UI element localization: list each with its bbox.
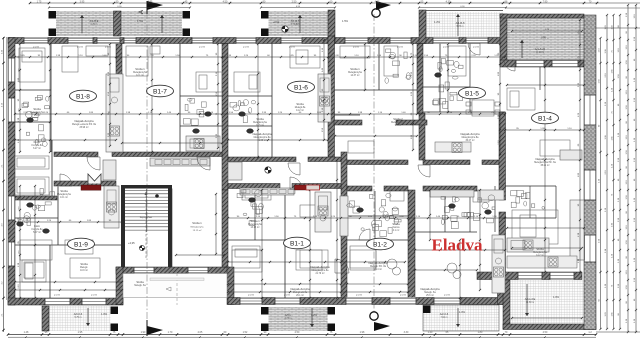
svg-text:3.30: 3.30	[404, 331, 409, 334]
svg-text:Melegkonyha: Melegkonyha	[248, 224, 262, 226]
svg-text:12.5 m²: 12.5 m²	[256, 124, 264, 127]
svg-text:3.73 m: 3.73 m	[284, 318, 291, 320]
svg-text:+4,35: +4,35	[128, 241, 135, 245]
svg-text:1.95: 1.95	[78, 331, 83, 334]
svg-text:B1-8: B1-8	[76, 93, 90, 100]
svg-text:Melegkonyha: Melegkonyha	[57, 194, 71, 196]
svg-text:Melegkonyha 8a: Melegkonyha 8a	[254, 137, 272, 139]
svg-text:6.27 m²: 6.27 m²	[33, 147, 41, 150]
svg-text:+2.52: +2.52	[273, 20, 280, 24]
svg-text:6.75(B6): 6.75(B6)	[291, 24, 300, 26]
svg-text:36.27 m²: 36.27 m²	[465, 139, 474, 142]
svg-text:25.96 m²: 25.96 m²	[79, 126, 88, 129]
svg-text:4.30: 4.30	[446, 1, 451, 4]
svg-text:14.2 m²: 14.2 m²	[296, 109, 304, 112]
svg-text:A/1-B-6: A/1-B-6	[291, 19, 300, 23]
svg-text:pro B5: pro B5	[443, 47, 450, 49]
svg-text:1.0%: 1.0%	[459, 310, 466, 314]
svg-text:2.50: 2.50	[295, 331, 300, 334]
svg-text:Szoba: Szoba	[136, 280, 144, 284]
svg-text:21.79 m²: 21.79 m²	[315, 272, 324, 275]
svg-text:1.75: 1.75	[37, 1, 42, 4]
svg-text:Fozo-: Fozo-	[34, 140, 41, 144]
svg-text:1.98: 1.98	[360, 331, 365, 334]
svg-text:B1-4: B1-4	[538, 115, 552, 122]
svg-text:Melegkonyha: Melegkonyha	[253, 122, 267, 124]
svg-text:7.02 m: 7.02 m	[440, 317, 447, 319]
svg-text:Melegk.+etkezo Pih. 8a: Melegk.+etkezo Pih. 8a	[72, 123, 97, 126]
svg-text:Fozo: Fozo	[34, 224, 40, 228]
svg-text:1.80: 1.80	[478, 331, 483, 334]
svg-text:pro B5: pro B5	[289, 47, 296, 49]
svg-text:pro B5: pro B5	[353, 47, 360, 49]
svg-text:Melegk. 8a: Melegk. 8a	[424, 292, 436, 294]
svg-text:5.73 m: 5.73 m	[456, 26, 463, 28]
svg-text:41.06 m²: 41.06 m²	[257, 139, 266, 142]
svg-text:25.6 m²: 25.6 m²	[426, 294, 434, 297]
svg-text:Melegkonyha: Melegkonyha	[533, 252, 547, 254]
svg-text:Melegkonyha: Melegkonyha	[391, 122, 405, 124]
svg-text:Szoba: Szoba	[256, 117, 264, 121]
svg-text:A: A	[139, 10, 145, 14]
svg-text:Melegk.8a: Melegk.8a	[295, 107, 306, 109]
svg-text:Szoba: Szoba	[80, 262, 88, 266]
svg-text:1.5%: 1.5%	[137, 19, 144, 23]
svg-text:pro B5: pro B5	[199, 47, 206, 49]
svg-text:3.95: 3.95	[80, 1, 85, 4]
svg-text:pro B5: pro B5	[397, 47, 404, 49]
svg-text:Melegk. Pih. 8a: Melegk. Pih. 8a	[370, 266, 387, 268]
svg-text:pro B5: pro B5	[105, 47, 112, 49]
svg-text:4.50: 4.50	[223, 1, 228, 4]
svg-text:6.75: 6.75	[148, 1, 153, 4]
svg-text:A/0-L: A/0-L	[285, 313, 292, 317]
svg-text:12.1 m²: 12.1 m²	[136, 74, 144, 77]
svg-text:Melegkonyha: Melegkonyha	[133, 72, 147, 74]
svg-text:B1-6: B1-6	[294, 84, 308, 91]
svg-text:pro B5: pro B5	[284, 295, 291, 297]
svg-text:Melegk.: Melegk.	[80, 267, 88, 269]
svg-text:B1-5: B1-5	[465, 90, 479, 97]
svg-text:Szoba 1: Szoba 1	[192, 221, 202, 225]
svg-text:Nappali+Konyha: Nappali+Konyha	[535, 157, 555, 161]
svg-text:1.52: 1.52	[243, 331, 248, 334]
svg-text:Nappali+Konyha: Nappali+Konyha	[368, 261, 388, 265]
svg-text:13.12 m²: 13.12 m²	[250, 226, 259, 229]
svg-text:10.9 m²: 10.9 m²	[80, 269, 88, 272]
svg-text:Szoba: Szoba	[392, 222, 400, 226]
svg-text:pro B5: pro B5	[33, 47, 40, 49]
svg-text:1.48: 1.48	[24, 331, 29, 334]
svg-text:Kamra: Kamra	[393, 226, 400, 229]
svg-text:Szoba 1: Szoba 1	[350, 67, 360, 71]
svg-text:A/2-0-6: A/2-0-6	[440, 312, 449, 316]
svg-text:pro B5: pro B5	[243, 47, 250, 49]
svg-text:2.50: 2.50	[292, 1, 297, 4]
svg-text:pro B5: pro B5	[77, 47, 84, 49]
svg-text:pro B5: pro B5	[91, 295, 98, 297]
svg-text:Szoba: Szoba	[296, 102, 304, 106]
svg-text:pro B5: pro B5	[248, 295, 255, 297]
svg-text:Melegkonyha 8a: Melegkonyha 8a	[462, 137, 480, 139]
svg-text:Melegk.etk 8a: Melegk.etk 8a	[293, 291, 308, 294]
svg-text:Nappali+Konyha: Nappali+Konyha	[252, 132, 272, 136]
svg-text:24.4 m²: 24.4 m²	[374, 268, 382, 271]
svg-text:5.07 m²: 5.07 m²	[33, 231, 41, 234]
svg-text:Melegkonyha: Melegkonyha	[30, 112, 44, 114]
svg-text:13.1 m²: 13.1 m²	[60, 196, 68, 199]
svg-text:A/1-A-26: A/1-A-26	[535, 47, 546, 51]
svg-text:Szoba 2: Szoba 2	[393, 117, 403, 121]
svg-text:1.2%: 1.2%	[434, 20, 441, 24]
svg-text:Melegk. 8a: Melegk. 8a	[134, 285, 146, 287]
svg-text:pro B5: pro B5	[473, 47, 480, 49]
svg-text:pro B5: pro B5	[444, 295, 451, 297]
svg-text:1.40: 1.40	[428, 331, 433, 334]
svg-text:14.2 m²: 14.2 m²	[536, 254, 544, 257]
svg-text:4.1 m²: 4.1 m²	[393, 229, 400, 232]
svg-text:pro B5: pro B5	[400, 295, 407, 297]
svg-text:26.1 m²: 26.1 m²	[296, 294, 304, 297]
svg-text:Szoba 1: Szoba 1	[135, 67, 145, 71]
svg-text:7.90: 7.90	[543, 1, 548, 4]
svg-text:1.5%: 1.5%	[342, 19, 349, 23]
svg-text:V.99 →: V.99 →	[541, 37, 549, 40]
svg-text:Lepcsohaz: Lepcsohaz	[140, 215, 153, 219]
svg-text:A/0-0-6: A/0-0-6	[74, 312, 83, 316]
svg-text:Nappali+Konyha: Nappali+Konyha	[310, 265, 330, 269]
svg-text:9.1 m²: 9.1 m²	[34, 114, 41, 117]
svg-text:A/1-H-8a: A/1-H-8a	[525, 297, 536, 301]
svg-text:Nappali+Konyha: Nappali+Konyha	[74, 119, 94, 123]
svg-text:Szoba 1: Szoba 1	[250, 219, 260, 223]
svg-text:13.12 m²: 13.12 m²	[193, 229, 202, 232]
svg-text:Nappali+Konyha: Nappali+Konyha	[420, 287, 440, 291]
svg-text:B1-7: B1-7	[153, 88, 167, 95]
svg-text:9.7 m²: 9.7 m²	[395, 124, 402, 127]
svg-text:4.50: 4.50	[543, 331, 548, 334]
svg-text:1.0%: 1.0%	[553, 295, 560, 299]
svg-text:14.37 m²: 14.37 m²	[350, 74, 359, 77]
svg-text:2.05: 2.05	[198, 331, 203, 334]
svg-text:Melegkonyha: Melegkonyha	[190, 227, 204, 229]
svg-text:11.40 m: 11.40 m	[536, 52, 544, 54]
svg-text:1.70: 1.70	[168, 331, 173, 334]
svg-text:5.75 m: 5.75 m	[74, 317, 81, 319]
svg-text:Melegkonyha Pih. 8a: Melegkonyha Pih. 8a	[534, 162, 556, 164]
svg-text:38.21 m²: 38.21 m²	[540, 164, 549, 167]
svg-text:1.90: 1.90	[141, 331, 146, 334]
svg-text:B1-9: B1-9	[74, 241, 88, 248]
svg-text:Eladva: Eladva	[431, 236, 483, 255]
svg-text:Melegkonyha 8a: Melegkonyha 8a	[312, 270, 330, 272]
svg-text:pro B5: pro B5	[54, 295, 61, 297]
svg-text:A/1-B-E: A/1-B-E	[89, 19, 98, 23]
svg-text:4.92: 4.92	[375, 1, 380, 4]
svg-text:Szoba: Szoba	[33, 107, 41, 111]
svg-text:1.0%: 1.0%	[101, 312, 108, 316]
svg-text:Szoba: Szoba	[60, 189, 68, 193]
svg-text:6.75 m: 6.75 m	[90, 24, 97, 26]
svg-text:Melegkonyha: Melegkonyha	[348, 72, 362, 74]
svg-text:B1-1: B1-1	[290, 240, 304, 247]
svg-text:Nappali+Konyha: Nappali+Konyha	[460, 132, 480, 136]
svg-text:Nappali+Konyha: Nappali+Konyha	[290, 287, 310, 291]
svg-text:Konyha 8a: Konyha 8a	[32, 229, 44, 231]
svg-text:pro B5: pro B5	[356, 295, 363, 297]
svg-text:B1-2: B1-2	[373, 241, 387, 248]
svg-text:A/1-B-8: A/1-B-8	[456, 21, 465, 25]
svg-text:Szoba: Szoba	[536, 247, 544, 251]
svg-text:Konyha 8a: Konyha 8a	[32, 145, 44, 147]
